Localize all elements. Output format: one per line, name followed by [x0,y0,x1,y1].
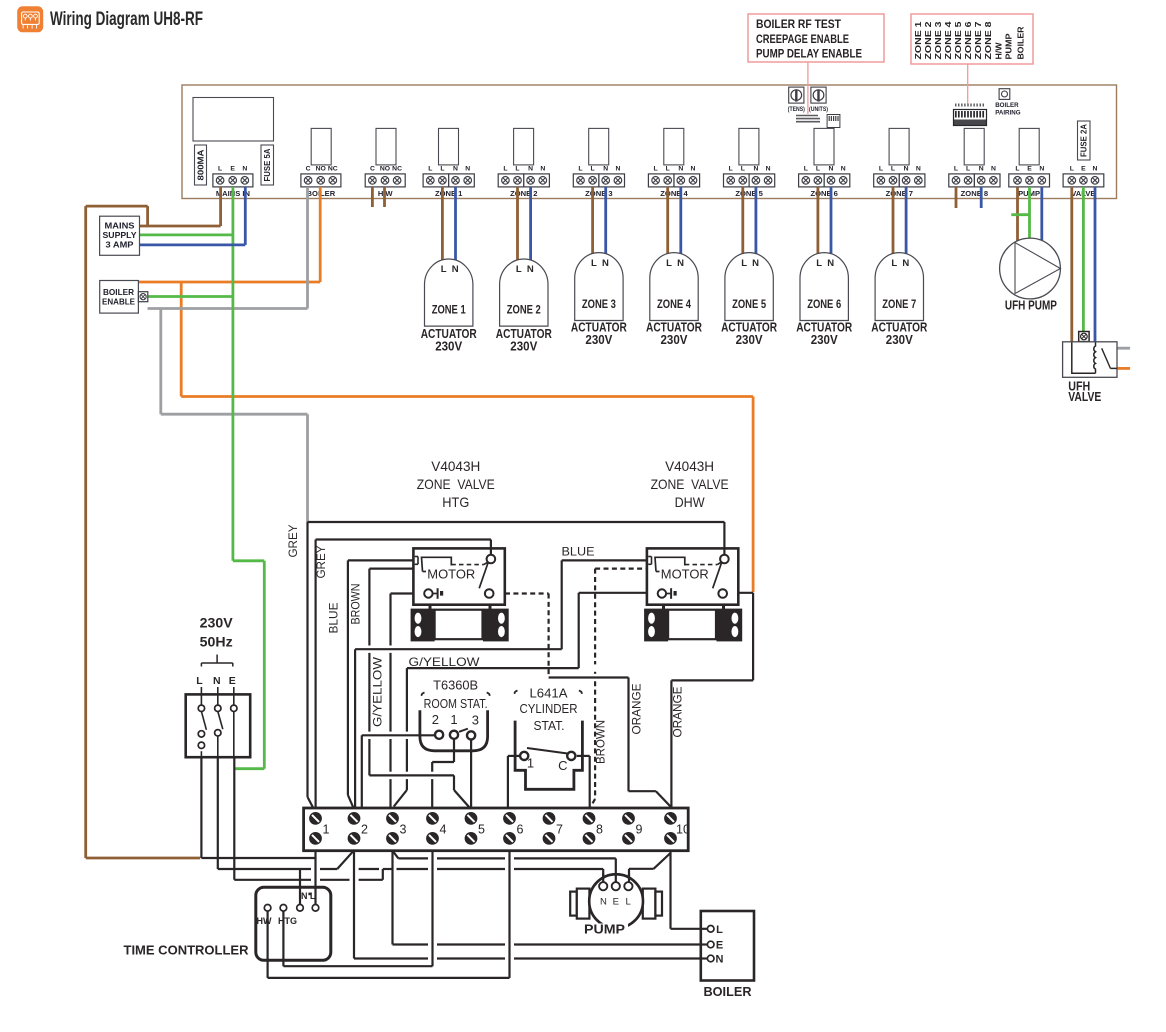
svg-text:PUMP DELAY ENABLE: PUMP DELAY ENABLE [756,47,862,61]
svg-text:N: N [528,166,533,173]
svg-text:L: L [310,891,316,901]
svg-text:L: L [626,897,631,908]
svg-text:ZONE 5: ZONE 5 [954,21,963,60]
svg-text:L: L [591,166,595,173]
svg-text:N: N [527,264,534,275]
svg-text:MAINS: MAINS [105,221,135,231]
svg-text:C: C [370,166,375,173]
svg-text:H/W: H/W [995,42,1004,59]
svg-text:E: E [613,897,619,908]
svg-text:ZONE 1: ZONE 1 [435,189,463,198]
svg-text:N: N [902,258,909,269]
svg-text:N: N [753,166,758,173]
svg-text:L: L [1070,166,1074,173]
svg-text:ZONE 7: ZONE 7 [882,299,916,311]
svg-text:PUMP: PUMP [584,923,625,937]
svg-text:ZONE VALVE: ZONE VALVE [651,477,729,492]
svg-text:L: L [196,675,203,687]
svg-text:L: L [716,924,723,936]
svg-text:ZONE 2: ZONE 2 [924,21,933,60]
svg-text:N: N [677,258,684,269]
svg-text:N: N [1093,166,1098,173]
svg-text:L: L [428,166,432,173]
svg-text:N: N [979,166,984,173]
svg-text:9: 9 [636,823,643,837]
svg-text:(UNITS): (UNITS) [809,107,828,113]
svg-text:STAT.: STAT. [534,718,565,733]
svg-text:HTG: HTG [278,916,297,926]
svg-text:ORANGE: ORANGE [632,683,644,734]
svg-text:L: L [729,166,733,173]
svg-text:L: L [578,166,582,173]
svg-text:ZONE 2: ZONE 2 [507,305,541,317]
svg-text:DHW: DHW [675,495,705,510]
svg-text:230V: 230V [435,338,462,353]
svg-text:230V: 230V [200,616,233,631]
svg-text:L: L [440,166,444,173]
svg-text:ZONE 3: ZONE 3 [585,189,612,198]
svg-text:NO: NO [380,166,390,173]
svg-text:FUSE 5A: FUSE 5A [262,149,272,182]
svg-text:3 AMP: 3 AMP [106,240,134,250]
svg-text:HTG: HTG [442,495,469,510]
svg-text:ORANGE: ORANGE [673,686,685,737]
svg-text:PAIRING: PAIRING [995,110,1021,117]
svg-text:ZONE 8: ZONE 8 [961,189,988,198]
svg-text:1: 1 [323,823,330,837]
svg-text:L: L [666,166,670,173]
svg-text:FUSE 2A: FUSE 2A [1079,124,1089,157]
svg-text:UFH PUMP: UFH PUMP [1005,299,1057,313]
svg-text:L: L [515,166,519,173]
svg-text:GREY: GREY [316,545,328,578]
svg-text:5: 5 [478,823,485,837]
svg-text:N: N [213,675,221,687]
svg-text:N: N [991,166,996,173]
svg-text:BOILER: BOILER [995,102,1019,109]
svg-text:SUPPLY: SUPPLY [103,230,137,240]
svg-text:2: 2 [361,823,368,837]
svg-text:ZONE 6: ZONE 6 [964,21,973,60]
svg-text:BOILER: BOILER [1017,26,1026,59]
svg-text:N: N [1039,166,1044,173]
svg-text:HW: HW [257,916,272,926]
svg-text:NO: NO [316,166,326,173]
svg-text:G/YELLOW: G/YELLOW [373,657,385,727]
svg-text:6: 6 [517,823,524,837]
svg-text:VALVE: VALVE [1068,390,1101,404]
svg-text:E: E [716,940,723,952]
svg-text:BLUE: BLUE [562,545,595,559]
svg-text:C: C [558,758,567,773]
svg-text:L: L [954,166,958,173]
svg-text:ZONE 4: ZONE 4 [657,299,691,311]
svg-text:L: L [879,166,883,173]
svg-text:N: N [465,166,470,173]
svg-text:TIME CONTROLLER: TIME CONTROLLER [124,943,250,958]
svg-text:L: L [741,258,747,269]
svg-text:MOTOR: MOTOR [661,568,709,582]
svg-text:N: N [752,258,759,269]
svg-text:ZONE 7: ZONE 7 [974,21,983,60]
svg-text:N: N [453,166,458,173]
svg-text:N: N [452,264,459,275]
svg-text:CREEPAGE ENABLE: CREEPAGE ENABLE [756,32,849,46]
svg-text:L: L [503,166,507,173]
svg-text:1: 1 [527,756,534,771]
svg-text:230V: 230V [736,332,763,347]
svg-text:E: E [1027,166,1032,173]
svg-text:N: N [827,258,834,269]
svg-text:L641A: L641A [530,686,568,701]
svg-text:1: 1 [450,712,457,727]
svg-text:ZONE 2: ZONE 2 [510,189,537,198]
svg-text:230V: 230V [886,332,913,347]
svg-text:N: N [301,891,308,901]
svg-text:ZONE 5: ZONE 5 [732,299,766,311]
svg-text:G/YELLOW: G/YELLOW [409,655,481,669]
svg-text:N: N [766,166,771,173]
svg-text:PUMP: PUMP [1005,33,1014,60]
svg-text:L: L [966,166,970,173]
svg-text:ZONE VALVE: ZONE VALVE [417,477,495,492]
svg-text:ZONE 7: ZONE 7 [886,189,913,198]
svg-text:MOTOR: MOTOR [427,568,475,582]
svg-text:L: L [816,258,822,269]
svg-text:10: 10 [676,823,690,837]
svg-text:L: L [218,166,222,173]
svg-text:N: N [242,166,247,173]
svg-text:ZONE 3: ZONE 3 [582,299,616,311]
svg-text:ZONE 6: ZONE 6 [807,299,841,311]
svg-text:ZONE 1: ZONE 1 [432,305,466,317]
svg-text:L: L [516,264,522,275]
svg-text:8: 8 [596,823,603,837]
svg-text:V4043H: V4043H [431,459,480,474]
svg-text:ROOM STAT.: ROOM STAT. [424,696,488,711]
svg-text:ZONE 5: ZONE 5 [735,189,763,198]
svg-text:C: C [306,166,311,173]
svg-text:2: 2 [432,712,439,727]
svg-text:ZONE 6: ZONE 6 [810,189,837,198]
svg-text:ZONE 8: ZONE 8 [984,21,993,60]
svg-text:7: 7 [556,823,563,837]
svg-text:N: N [829,166,834,173]
svg-text:L: L [441,264,447,275]
svg-text:N: N [600,897,607,908]
svg-text:E: E [229,675,236,687]
svg-text:BOILER: BOILER [704,985,752,999]
svg-text:N: N [904,166,909,173]
svg-text:N: N [615,166,620,173]
svg-text:Wiring Diagram UH8-RF: Wiring Diagram UH8-RF [50,9,203,30]
svg-text:230V: 230V [585,332,612,347]
svg-text:L: L [741,166,745,173]
svg-text:L: L [591,258,597,269]
svg-text:N: N [678,166,683,173]
svg-text:4: 4 [440,823,447,837]
svg-text:ZONE 3: ZONE 3 [934,21,943,60]
svg-text:L: L [816,166,820,173]
svg-text:N: N [540,166,545,173]
svg-text:L: L [1015,166,1019,173]
svg-text:E: E [1081,166,1086,173]
svg-text:ZONE 4: ZONE 4 [944,21,953,60]
svg-text:50Hz: 50Hz [200,635,233,650]
svg-text:N: N [841,166,846,173]
svg-text:L: L [804,166,808,173]
svg-text:GREY: GREY [288,524,300,557]
svg-text:800MA: 800MA [195,150,205,181]
svg-text:NC: NC [392,166,402,173]
svg-text:N: N [602,258,609,269]
svg-text:BLUE: BLUE [329,602,341,633]
svg-text:N: N [691,166,696,173]
svg-text:ZONE 4: ZONE 4 [660,189,688,198]
svg-text:BOILER RF TEST: BOILER RF TEST [756,17,842,31]
svg-text:230V: 230V [510,338,537,353]
svg-text:N: N [916,166,921,173]
svg-text:E: E [230,166,235,173]
svg-text:230V: 230V [661,332,688,347]
svg-text:T6360B: T6360B [433,678,478,693]
svg-text:N: N [603,166,608,173]
svg-text:ENABLE: ENABLE [102,297,135,307]
svg-text:L: L [891,166,895,173]
svg-text:BOILER: BOILER [103,287,134,297]
svg-text:V4043H: V4043H [665,459,714,474]
svg-text:230V: 230V [811,332,838,347]
svg-text:ZONE 1: ZONE 1 [914,21,923,60]
svg-text:L: L [666,258,672,269]
svg-text:L: L [654,166,658,173]
svg-text:(TENS): (TENS) [788,107,805,113]
svg-text:L: L [891,258,897,269]
svg-text:BROWN: BROWN [596,720,608,764]
svg-text:N: N [716,954,724,966]
svg-text:3: 3 [400,823,407,837]
svg-text:CYLINDER: CYLINDER [520,701,578,716]
svg-text:3: 3 [472,712,479,727]
svg-text:BROWN: BROWN [351,584,363,625]
svg-text:NC: NC [328,166,338,173]
